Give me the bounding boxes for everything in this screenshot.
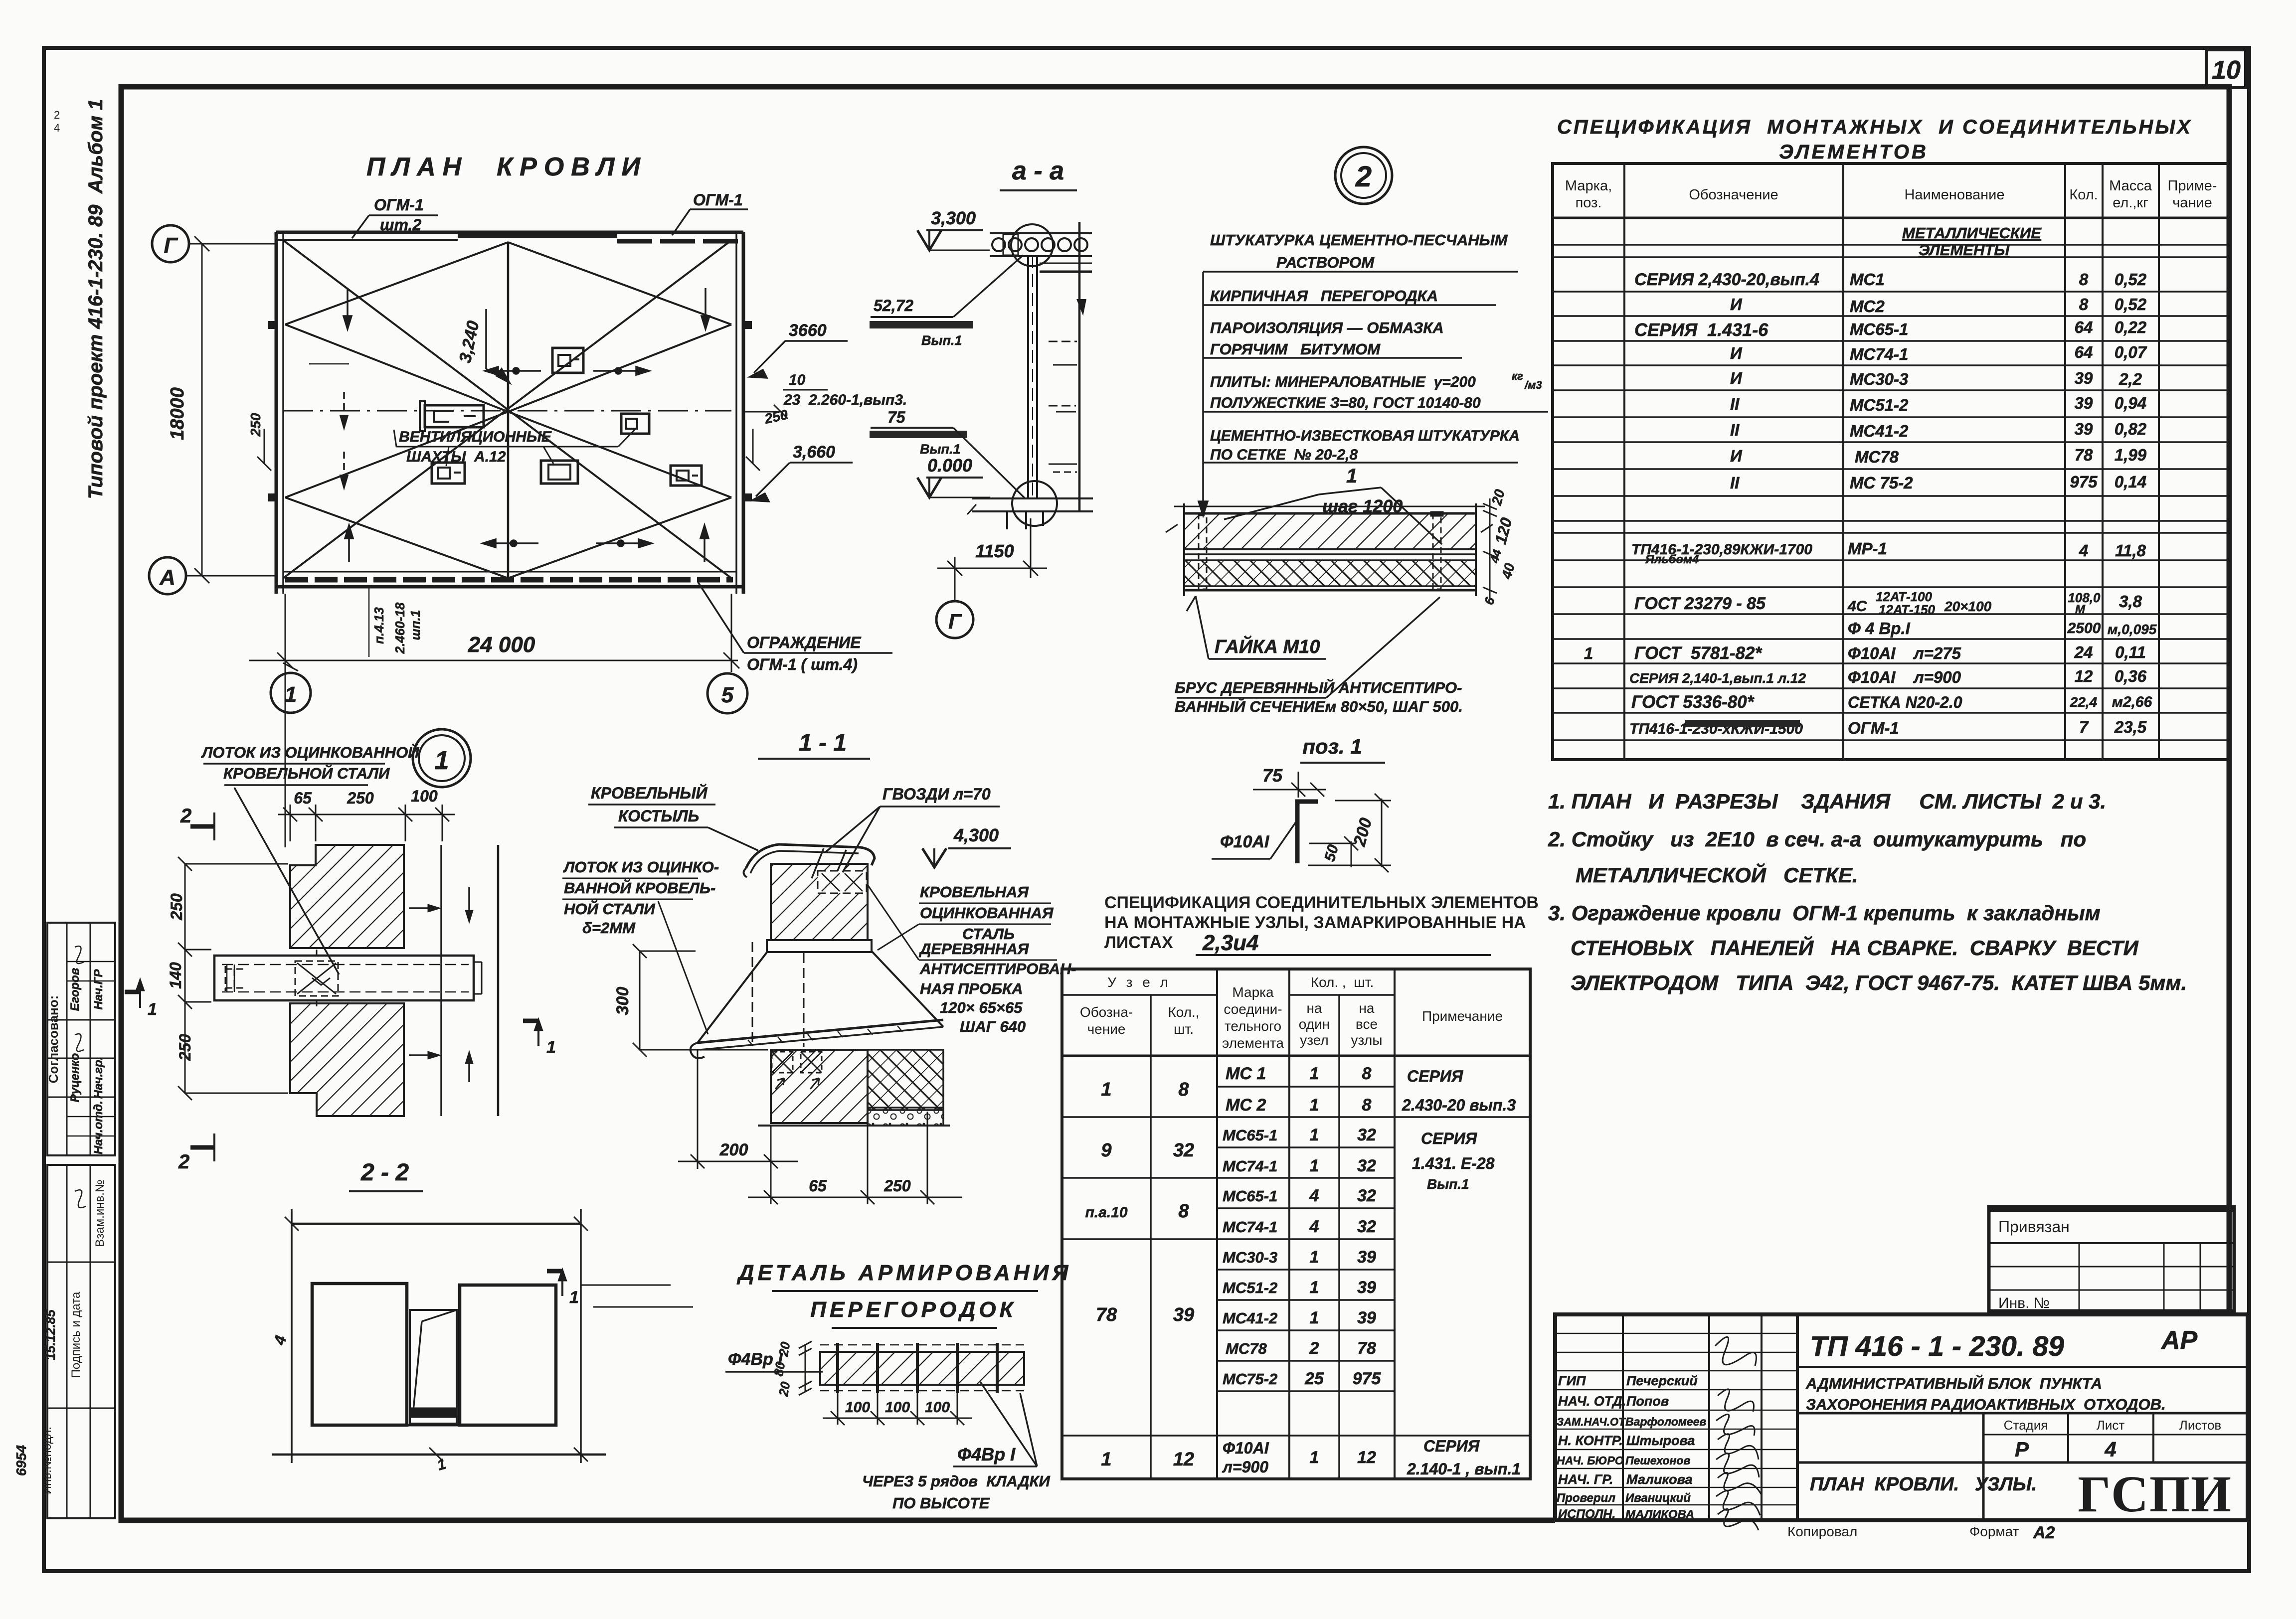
svg-text:12: 12	[1357, 1448, 1376, 1467]
svg-text:6954: 6954	[13, 1445, 29, 1476]
svg-text:ШТУКАТУРКА ЦЕМЕНТНО-ПЕСЧАНЫМ: ШТУКАТУРКА ЦЕМЕНТНО-ПЕСЧАНЫМ	[1210, 231, 1508, 249]
cap flashing	[743, 844, 875, 877]
svg-text:Инв. №: Инв. №	[1998, 1295, 2050, 1311]
svg-text:24: 24	[2074, 643, 2093, 661]
middle spec table heading	[1062, 893, 1539, 1479]
vent shafts	[420, 348, 702, 486]
svg-text:20×100: 20×100	[1944, 599, 1992, 614]
svg-text:СЕРИЯ: СЕРИЯ	[1421, 1130, 1477, 1147]
wooden plug dashed	[818, 871, 867, 893]
svg-text:СЕРИЯ 2,140-1,вып.1 л.12: СЕРИЯ 2,140-1,вып.1 л.12	[1629, 670, 1806, 686]
svg-text:1 - 1: 1 - 1	[799, 730, 847, 756]
svg-text:ВАННОЙ КРОВЕЛЬ-: ВАННОЙ КРОВЕЛЬ-	[564, 879, 715, 897]
svg-text:Печерский: Печерский	[1626, 1373, 1698, 1388]
svg-text:0,52: 0,52	[2115, 295, 2147, 314]
svg-text:ЧЕРЕЗ 5 рядов КЛАДКИ: ЧЕРЕЗ 5 рядов КЛАДКИ	[862, 1472, 1051, 1490]
svg-text:1: 1	[285, 682, 297, 707]
dimension 18000	[194, 236, 209, 583]
node 1 scope circle bottom	[1012, 481, 1057, 526]
svg-text:975: 975	[2070, 473, 2098, 491]
svg-text:Марка: Марка	[1232, 984, 1274, 1000]
section a-a title	[870, 157, 1093, 638]
svg-text:Обозначение: Обозначение	[1689, 187, 1778, 203]
svg-text:32: 32	[1357, 1156, 1376, 1175]
svg-text:МС30-3: МС30-3	[1223, 1249, 1277, 1266]
svg-text:СЕТКА N20-2.0: СЕТКА N20-2.0	[1848, 693, 1962, 711]
dimension 24000	[249, 594, 739, 847]
svg-text:1: 1	[435, 746, 449, 775]
axis circle 5	[707, 673, 747, 713]
svg-text:39: 39	[2075, 369, 2093, 387]
svg-text:Варфоломеев: Варфоломеев	[1625, 1415, 1707, 1428]
svg-text:2.430-20 вып.3: 2.430-20 вып.3	[1402, 1096, 1516, 1114]
svg-text:ЭЛЕМЕНТЫ: ЭЛЕМЕНТЫ	[1919, 241, 2010, 259]
svg-text:СЕРИЯ: СЕРИЯ	[1407, 1067, 1463, 1085]
svg-text:ЗАМ.НАЧ.ОТ: ЗАМ.НАЧ.ОТ	[1557, 1416, 1626, 1428]
svg-text:12: 12	[1173, 1449, 1194, 1470]
svg-text:Попов: Попов	[1626, 1394, 1669, 1409]
svg-text:0,36: 0,36	[2115, 667, 2147, 685]
svg-text:шт,2: шт,2	[380, 216, 421, 234]
node 2 scope circle top	[1011, 224, 1053, 266]
svg-text:200: 200	[719, 1140, 748, 1159]
svg-text:ГСПИ: ГСПИ	[2078, 1465, 2232, 1523]
svg-text:Вып.1: Вып.1	[1427, 1176, 1469, 1192]
svg-text:39: 39	[1357, 1278, 1376, 1297]
svg-text:65: 65	[809, 1177, 827, 1195]
node 1 plan detail	[125, 729, 579, 1307]
svg-text:ОГМ-1 ( шт.4): ОГМ-1 ( шт.4)	[747, 655, 858, 673]
svg-text:1: 1	[1310, 1064, 1319, 1083]
svg-text:32: 32	[1173, 1140, 1194, 1161]
svg-text:НАЧ. БЮРО: НАЧ. БЮРО	[1557, 1454, 1624, 1467]
spec table grid	[1553, 163, 2229, 760]
svg-text:МС51-2: МС51-2	[1223, 1279, 1277, 1296]
svg-text:ПЛАН КРОВЛИ. УЗЛЫ.: ПЛАН КРОВЛИ. УЗЛЫ.	[1810, 1474, 2037, 1495]
svg-text:4: 4	[1309, 1217, 1319, 1236]
svg-text:ГОСТ 23279 - 85: ГОСТ 23279 - 85	[1634, 594, 1766, 613]
svg-text:на: на	[1359, 1000, 1374, 1016]
svg-text:один: один	[1299, 1016, 1330, 1032]
svg-text:МС78: МС78	[1855, 448, 1899, 466]
svg-text:тельного: тельного	[1225, 1018, 1281, 1034]
svg-text:1. ПЛАН И РАЗРЕЗЫ ЗДАНИЯ: 1. ПЛАН И РАЗРЕЗЫ ЗДАНИЯ СМ. ЛИСТЫ 2 и 3…	[1548, 790, 2106, 813]
gutter profile	[691, 1020, 943, 1058]
svg-text:78: 78	[1096, 1304, 1117, 1325]
rebar detail title	[725, 1261, 1071, 1512]
svg-text:НАЧ. ГР.: НАЧ. ГР.	[1558, 1472, 1613, 1487]
parapet walls	[268, 232, 752, 594]
svg-text:Копировал: Копировал	[1787, 1524, 1857, 1539]
svg-text:МС65-1: МС65-1	[1223, 1187, 1277, 1205]
section cut 1 arrows	[125, 978, 567, 1296]
svg-text:МС41-2: МС41-2	[1223, 1309, 1277, 1327]
section cut 2 bottom	[190, 1133, 215, 1161]
svg-text:ПЛИТЫ: МИНЕРАЛОВАТНЫЕ γ=200: ПЛИТЫ: МИНЕРАЛОВАТНЫЕ γ=200	[1210, 374, 1476, 390]
svg-text:МС41-2: МС41-2	[1850, 422, 1909, 440]
dim 75	[1253, 772, 1326, 798]
svg-text:Иваницкий: Иваницкий	[1625, 1491, 1691, 1505]
svg-text:чение: чение	[1087, 1021, 1126, 1037]
middle table grid	[1062, 969, 1530, 1479]
dims 100 100 100	[823, 1393, 972, 1425]
svg-text:1: 1	[148, 1000, 157, 1019]
axis circle G below section	[936, 601, 973, 638]
svg-text:15.12.85: 15.12.85	[43, 1309, 58, 1360]
svg-text:250: 250	[883, 1177, 911, 1195]
svg-text:ОГМ-1: ОГМ-1	[374, 196, 424, 214]
svg-text:2.140-1 , вып.1: 2.140-1 , вып.1	[1407, 1460, 1521, 1478]
svg-text:0,11: 0,11	[2115, 643, 2146, 661]
svg-text:КРОВЕЛЬНАЯ: КРОВЕЛЬНАЯ	[920, 883, 1029, 901]
svg-text:39: 39	[1357, 1248, 1376, 1267]
svg-text:НОЙ СТАЛИ: НОЙ СТАЛИ	[564, 900, 655, 918]
svg-text:12: 12	[2075, 667, 2093, 685]
sandwich panel detail drawing	[1166, 503, 1493, 596]
svg-text:4: 4	[2104, 1438, 2116, 1461]
svg-text:65: 65	[294, 789, 312, 807]
svg-text:Нач.отд.: Нач.отд.	[92, 1101, 105, 1154]
plugs in lower wall	[772, 1052, 822, 1089]
svg-text:ПО ВЫСОТЕ: ПО ВЫСОТЕ	[892, 1494, 990, 1512]
svg-text:140: 140	[167, 962, 184, 989]
sandwich dims right	[1483, 498, 1497, 598]
svg-text:шп.1: шп.1	[408, 610, 423, 641]
svg-text:78: 78	[2075, 446, 2093, 464]
svg-text:МС1: МС1	[1850, 270, 1885, 289]
svg-text:узел: узел	[1300, 1032, 1329, 1048]
svg-text:3,8: 3,8	[2119, 592, 2142, 611]
svg-text:НА МОНТАЖНЫЕ УЗЛЫ, ЗАМАРКИРОВА: НА МОНТАЖНЫЕ УЗЛЫ, ЗАМАРКИРОВАННЫЕ НА	[1104, 913, 1526, 932]
svg-text:ЗАХОРОНЕНИЯ РАДИОАКТИВНЫХ ОТХ: ЗАХОРОНЕНИЯ РАДИОАКТИВНЫХ ОТХОДОВ.	[1806, 1396, 2166, 1413]
svg-text:II: II	[1730, 421, 1740, 439]
svg-text:100: 100	[411, 787, 438, 805]
svg-text:3,300: 3,300	[931, 208, 976, 228]
svg-text:У з е л: У з е л	[1107, 974, 1171, 990]
svg-text:8: 8	[1178, 1079, 1189, 1100]
roof plan title	[149, 153, 907, 847]
svg-text:чание: чание	[2172, 195, 2212, 211]
svg-text:1: 1	[1101, 1079, 1111, 1100]
detail circle 1	[413, 729, 471, 787]
svg-text:4: 4	[2079, 541, 2088, 560]
svg-text:0,82: 0,82	[2115, 420, 2147, 438]
svg-text:Листов: Листов	[2179, 1418, 2221, 1433]
svg-text:Ф4Вр I: Ф4Вр I	[957, 1444, 1016, 1464]
insulation crosshatch	[868, 1050, 943, 1110]
svg-text:АНТИСЕПТИРОВАН-: АНТИСЕПТИРОВАН-	[919, 960, 1076, 977]
signatures	[1715, 1337, 1762, 1530]
svg-text:п.4.13: п.4.13	[371, 607, 386, 644]
svg-text:Ф10АI л=900: Ф10АI л=900	[1848, 668, 1961, 686]
svg-text:Наименование: Наименование	[1904, 187, 2004, 203]
svg-text:ШАГ 640: ШАГ 640	[960, 1018, 1026, 1035]
masonry block upper	[290, 845, 404, 948]
svg-text:2,2: 2,2	[2119, 370, 2142, 388]
svg-text:И: И	[1730, 344, 1743, 362]
axis circle 1	[271, 673, 311, 713]
svg-text:120× 65×65: 120× 65×65	[940, 999, 1023, 1016]
pos 1 rebar detail	[1212, 735, 1391, 872]
svg-text:СЕРИЯ: СЕРИЯ	[1423, 1437, 1480, 1455]
rebar strip drawing	[799, 1341, 1024, 1395]
svg-text:л=900: л=900	[1222, 1458, 1268, 1476]
svg-text:ОГМ-1: ОГМ-1	[1848, 719, 1899, 737]
svg-text:2 - 2: 2 - 2	[360, 1159, 409, 1186]
svg-text:1: 1	[1310, 1096, 1319, 1115]
svg-text:3660: 3660	[789, 321, 827, 340]
svg-text:МС74-1: МС74-1	[1223, 1218, 1277, 1236]
svg-text:250: 250	[168, 893, 185, 921]
specification table title	[1553, 116, 2229, 760]
svg-text:Согласовано:: Согласовано:	[46, 995, 61, 1084]
svg-text:8: 8	[2079, 270, 2089, 289]
svg-text:СПЕЦИФИКАЦИЯ МОНТАЖНЫХ И СОЕ: СПЕЦИФИКАЦИЯ МОНТАЖНЫХ И СОЕДИНИТЕЛЬНЫХ	[1557, 116, 2192, 138]
svg-text:Привязан: Привязан	[1998, 1218, 2070, 1236]
svg-text:32: 32	[1357, 1126, 1376, 1144]
svg-text:МС 75-2: МС 75-2	[1850, 474, 1913, 492]
svg-text:75: 75	[1262, 765, 1283, 786]
svg-text:ГВОЗДИ л=70: ГВОЗДИ л=70	[883, 785, 991, 803]
svg-text:МЕТАЛЛИЧЕСКОЙ СЕТКЕ.: МЕТАЛЛИЧЕСКОЙ СЕТКЕ.	[1576, 862, 1858, 887]
svg-text:ел.,кг: ел.,кг	[2113, 195, 2148, 211]
svg-text:МС30-3: МС30-3	[1850, 370, 1908, 388]
svg-text:ТП 416 - 1 - 230. 89: ТП 416 - 1 - 230. 89	[1810, 1330, 2064, 1362]
svg-text:18000: 18000	[167, 387, 188, 440]
svg-text:39: 39	[1357, 1308, 1376, 1327]
svg-text:8: 8	[1362, 1096, 1372, 1115]
middle table data	[1085, 1064, 1521, 1478]
svg-text:МС2: МС2	[1850, 297, 1885, 316]
svg-text:ГИП: ГИП	[1558, 1373, 1586, 1388]
svg-text:1: 1	[1310, 1308, 1319, 1327]
svg-text:39: 39	[1173, 1304, 1194, 1325]
rubble layer	[868, 1108, 943, 1126]
nails	[812, 848, 846, 879]
svg-text:ПО СЕТКЕ № 20-2,8: ПО СЕТКЕ № 20-2,8	[1210, 447, 1358, 463]
svg-text:10: 10	[2212, 56, 2241, 85]
svg-text:1: 1	[1310, 1156, 1319, 1175]
title block names	[1557, 1373, 1707, 1521]
axis circle G	[152, 225, 276, 262]
svg-text:250: 250	[347, 789, 374, 807]
svg-text:4: 4	[1309, 1186, 1319, 1205]
roof slope lines	[283, 240, 731, 578]
svg-text:Нач.гр.: Нач.гр.	[92, 1057, 105, 1099]
svg-text:2: 2	[178, 1151, 189, 1173]
svg-text:ГАЙКА М10: ГАЙКА М10	[1215, 635, 1320, 657]
svg-text:Формат: Формат	[1969, 1524, 2019, 1539]
svg-text:3,660: 3,660	[793, 443, 835, 462]
svg-text:4: 4	[54, 122, 60, 134]
svg-text:Стадия: Стадия	[2004, 1418, 2048, 1433]
svg-text:НАЧ. ОТД.: НАЧ. ОТД.	[1558, 1394, 1626, 1409]
svg-text:И: И	[1730, 447, 1743, 465]
svg-text:МС65-1: МС65-1	[1223, 1127, 1277, 1144]
svg-text:2,3и4: 2,3и4	[1202, 931, 1259, 955]
svg-text:4С: 4С	[1847, 598, 1868, 615]
svg-text:Масса: Масса	[2109, 178, 2152, 194]
svg-text:23,5: 23,5	[2114, 718, 2147, 736]
wall face lines right	[409, 845, 498, 1116]
dim 200	[1308, 794, 1391, 872]
svg-text:Лист: Лист	[2097, 1418, 2125, 1433]
hollow core slab top	[990, 233, 1092, 272]
svg-text:МС78: МС78	[1226, 1340, 1267, 1357]
svg-text:ЛОТОК ИЗ ОЦИНКО-: ЛОТОК ИЗ ОЦИНКО-	[563, 858, 719, 876]
page number box 10	[2207, 50, 2246, 164]
svg-text:МЕТАЛЛИЧЕСКИЕ: МЕТАЛЛИЧЕСКИЕ	[1902, 224, 2042, 242]
svg-text:Вып.1: Вып.1	[921, 333, 962, 348]
svg-text:КОСТЫЛЬ: КОСТЫЛЬ	[618, 807, 699, 825]
svg-text:соедини-: соедини-	[1224, 1001, 1282, 1017]
svg-text:ГОРЯЧИМ БИТУМОМ: ГОРЯЧИМ БИТУМОМ	[1210, 340, 1381, 358]
svg-text:64: 64	[2075, 343, 2093, 361]
detail circle 2	[1166, 147, 1548, 715]
svg-text:39: 39	[2075, 394, 2093, 412]
svg-text:0,14: 0,14	[2115, 473, 2146, 491]
svg-text:ВЕНТИЛЯЦИОННЫЕ: ВЕНТИЛЯЦИОННЫЕ	[399, 429, 552, 445]
svg-text:100: 100	[925, 1399, 950, 1416]
svg-text:Г: Г	[164, 233, 178, 258]
svg-text:22,4: 22,4	[2070, 694, 2098, 710]
gutter channel plan	[214, 950, 482, 1006]
svg-text:кг: кг	[1512, 370, 1523, 382]
svg-text:И: И	[1730, 369, 1743, 387]
spec table rows	[1584, 224, 2157, 737]
dim 1150	[937, 518, 1047, 601]
svg-text:/м3: /м3	[1524, 379, 1542, 391]
top dims 65 250 100	[278, 805, 455, 841]
left dims 250 140 250	[178, 857, 288, 1100]
svg-text:Ф10АI: Ф10АI	[1223, 1439, 1269, 1457]
svg-text:2: 2	[1309, 1339, 1319, 1358]
svg-text:4,300: 4,300	[953, 825, 999, 845]
svg-text:м2,66: м2,66	[2112, 694, 2152, 710]
svg-text:ВАННЫЙ СЕЧЕНИЕм 80×50, ШАГ 500: ВАННЫЙ СЕЧЕНИЕм 80×50, ШАГ 500.	[1175, 697, 1463, 715]
svg-text:ПЕРЕГОРОДОК: ПЕРЕГОРОДОК	[810, 1297, 1016, 1322]
svg-text:52,72: 52,72	[874, 297, 913, 315]
masonry block lower	[290, 1003, 404, 1116]
svg-text:2: 2	[1355, 161, 1372, 193]
svg-text:ЭЛЕКТРОДОМ ТИПА Э42, ГОСТ 9: ЭЛЕКТРОДОМ ТИПА Э42, ГОСТ 9467-75. КАТЕТ…	[1571, 971, 2187, 994]
svg-text:32: 32	[1357, 1217, 1376, 1236]
slope arrows	[309, 288, 709, 562]
svg-text:РАСТВОРОМ: РАСТВОРОМ	[1276, 254, 1375, 271]
svg-text:Приме-: Приме-	[2168, 178, 2217, 194]
svg-text:Яльбом4: Яльбом4	[1645, 553, 1699, 566]
svg-text:1150: 1150	[975, 541, 1014, 561]
svg-text:8: 8	[1362, 1064, 1372, 1083]
parapet masonry	[771, 864, 868, 940]
spec table header texts	[1565, 178, 2217, 211]
svg-text:0.000: 0.000	[927, 455, 972, 476]
svg-text:КИРПИЧНАЯ ПЕРЕГОРОДКА: КИРПИЧНАЯ ПЕРЕГОРОДКА	[1210, 287, 1438, 305]
svg-text:ДЕТАЛЬ АРМИРОВАНИЯ: ДЕТАЛЬ АРМИРОВАНИЯ	[736, 1261, 1072, 1285]
svg-text:СЕРИЯ 2,430-20,вып.4: СЕРИЯ 2,430-20,вып.4	[1634, 270, 1819, 289]
svg-text:ЛОТОК ИЗ ОЦИНКОВАННОЙ: ЛОТОК ИЗ ОЦИНКОВАННОЙ	[201, 743, 419, 761]
general notes	[1548, 790, 2187, 994]
svg-text:Обозна-: Обозна-	[1080, 1004, 1133, 1020]
svg-text:Маликова: Маликова	[1626, 1472, 1693, 1487]
svg-text:5: 5	[721, 683, 734, 707]
svg-text:СТЕНОВЫХ ПАНЕЛЕЙ НА СВАРКЕ: СТЕНОВЫХ ПАНЕЛЕЙ НА СВАРКЕ. СВАРКУ ВЕСТИ	[1571, 935, 2139, 960]
lower wall masonry	[771, 1050, 868, 1123]
floor slab	[967, 498, 1093, 529]
dim 50	[1309, 836, 1358, 867]
dim 300	[633, 944, 768, 1057]
svg-text:250: 250	[248, 413, 263, 437]
svg-text:0,07: 0,07	[2115, 343, 2147, 361]
svg-text:ПОЛУЖЕСТКИЕ З=80, ГОСТ 10140-8: ПОЛУЖЕСТКИЕ З=80, ГОСТ 10140-80	[1210, 395, 1481, 411]
slab band	[767, 940, 872, 952]
svg-text:75: 75	[887, 408, 906, 426]
svg-text:МС 1: МС 1	[1226, 1064, 1266, 1083]
svg-text:И: И	[1730, 295, 1743, 314]
svg-text:Руценко: Руценко	[68, 1053, 82, 1103]
svg-text:ЭЛЕМЕНТОВ: ЭЛЕМЕНТОВ	[1779, 141, 1929, 163]
svg-text:9: 9	[1101, 1140, 1111, 1161]
title block	[1555, 1314, 2248, 1542]
svg-text:64: 64	[2075, 318, 2093, 336]
svg-text:ПЛАН КРОВЛИ: ПЛАН КРОВЛИ	[366, 153, 647, 181]
svg-text:δ=2ММ: δ=2ММ	[582, 919, 636, 937]
svg-text:Подпись и дата: Подпись и дата	[69, 1292, 83, 1378]
approval stamp table	[47, 923, 115, 1155]
svg-text:БРУС ДЕРЕВЯННЫЙ АНТИСЕПТИРО-: БРУС ДЕРЕВЯННЫЙ АНТИСЕПТИРО-	[1175, 678, 1462, 696]
svg-text:25: 25	[1304, 1369, 1324, 1388]
svg-text:12АТ-150: 12АТ-150	[1879, 602, 1936, 617]
section 1-1	[562, 730, 1076, 1204]
svg-text:МС65-1: МС65-1	[1850, 320, 1908, 338]
svg-text:ГОСТ 5781-82*: ГОСТ 5781-82*	[1634, 644, 1762, 663]
svg-text:1: 1	[1310, 1448, 1319, 1467]
svg-text:0,52: 0,52	[2115, 270, 2147, 289]
svg-text:1: 1	[1310, 1248, 1319, 1267]
svg-text:7: 7	[2079, 718, 2089, 736]
svg-text:1: 1	[546, 1038, 556, 1057]
svg-text:11,8: 11,8	[2115, 541, 2146, 560]
svg-text:Ф 4 Вр.I: Ф 4 Вр.I	[1848, 619, 1911, 638]
svg-text:А2: А2	[2033, 1523, 2055, 1542]
left margin rotated project label	[13, 99, 115, 1518]
svg-text:М: М	[2075, 603, 2086, 616]
svg-text:МС75-2: МС75-2	[1223, 1370, 1277, 1388]
svg-text:МР-1: МР-1	[1848, 539, 1887, 558]
svg-text:100: 100	[885, 1399, 910, 1416]
middle table header	[1080, 974, 1503, 1051]
svg-text:Егоров: Егоров	[68, 968, 82, 1011]
svg-text:3. Ограждение кровли ОГМ-1 кр: 3. Ограждение кровли ОГМ-1 крепить к зак…	[1548, 901, 2101, 925]
stem 2C10	[1028, 255, 1037, 498]
svg-text:поз.: поз.	[1576, 195, 1602, 211]
svg-text:1: 1	[569, 1288, 579, 1307]
svg-text:Г: Г	[948, 610, 962, 633]
svg-text:2: 2	[54, 109, 60, 121]
svg-text:ЦЕМЕНТНО-ИЗВЕСТКОВАЯ ШТУКАТУРК: ЦЕМЕНТНО-ИЗВЕСТКОВАЯ ШТУКАТУРКА	[1210, 428, 1520, 444]
svg-text:Ф10АI: Ф10АI	[1220, 832, 1270, 851]
svg-text:ИСПОЛН.: ИСПОЛН.	[1558, 1507, 1615, 1521]
svg-text:Марка,: Марка,	[1565, 178, 1612, 194]
svg-text:элемента: элемента	[1222, 1035, 1284, 1051]
svg-text:Р: Р	[2015, 1438, 2029, 1461]
svg-text:АР: АР	[2160, 1326, 2198, 1355]
svg-text:32: 32	[1357, 1186, 1376, 1205]
svg-text:ОГМ-1: ОГМ-1	[693, 191, 743, 209]
svg-text:Типовой проект 416-1-230. 89: Типовой проект 416-1-230. 89 Альбом 1	[85, 99, 107, 499]
svg-text:250: 250	[176, 1034, 194, 1061]
svg-text:а - а: а - а	[1012, 157, 1064, 185]
